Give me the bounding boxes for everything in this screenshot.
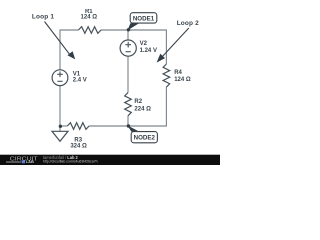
svg-text:Loop 2: Loop 2 [177, 20, 199, 27]
svg-text:324 Ω: 324 Ω [70, 143, 87, 149]
svg-text:R3: R3 [74, 137, 82, 143]
svg-text:http://circuitlab.com/c4u63t42: http://circuitlab.com/c4u63t426ca7h [43, 160, 98, 164]
svg-text:1.24 V: 1.24 V [140, 48, 157, 54]
svg-text:Loop 1: Loop 1 [32, 13, 54, 20]
svg-text:NODE2: NODE2 [134, 135, 156, 142]
svg-text:2.4 V: 2.4 V [73, 78, 87, 84]
svg-text:LAB: LAB [26, 159, 34, 164]
svg-text:R4: R4 [174, 70, 182, 76]
svg-text:V2: V2 [140, 41, 148, 47]
svg-text:R2: R2 [134, 99, 142, 105]
svg-text:NODE1: NODE1 [133, 16, 155, 23]
svg-text:124 Ω: 124 Ω [81, 14, 98, 20]
svg-text:124 Ω: 124 Ω [174, 77, 191, 83]
svg-text:V1: V1 [73, 71, 81, 77]
svg-text:224 Ω: 224 Ω [134, 106, 151, 112]
